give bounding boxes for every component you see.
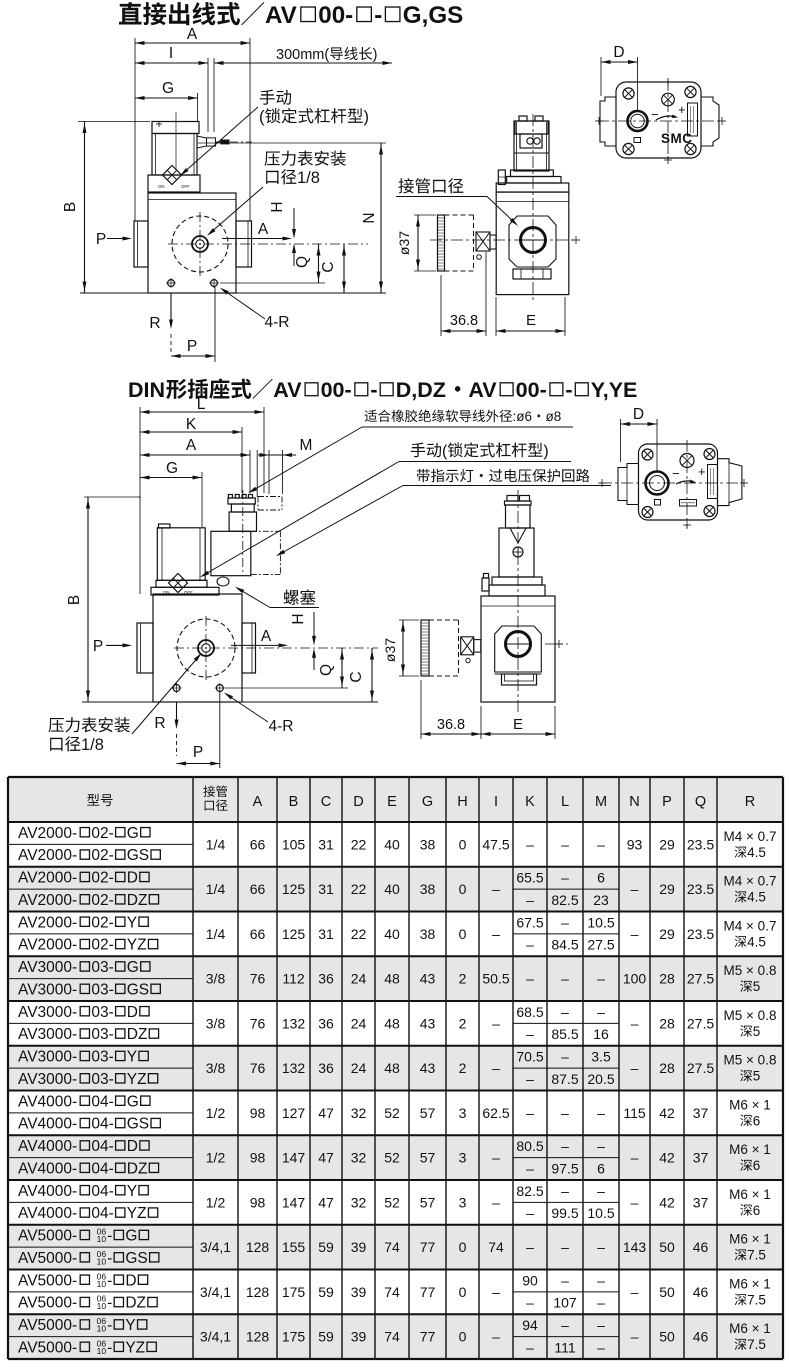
svg-text:125: 125 [282,881,306,897]
mounting holes [168,280,175,287]
svg-text:128: 128 [246,1239,270,1255]
svg-text:4-R: 4-R [269,718,294,735]
svg-text:3/4,1: 3/4,1 [200,1329,231,1345]
svg-text:48: 48 [384,1015,400,1031]
svg-text:36.8: 36.8 [437,717,465,733]
dim B (mid) [87,497,89,702]
svg-text:76: 76 [250,1060,266,1076]
svg-text:-: - [370,378,377,402]
svg-text:04-: 04- [91,1093,113,1110]
svg-text:36: 36 [318,1015,334,1031]
svg-text:DIN: DIN [128,378,165,402]
svg-text:03-: 03- [91,1004,113,1021]
svg-text:E: E [387,794,397,810]
svg-text:29: 29 [659,881,675,897]
svg-text:G: G [162,80,174,97]
svg-text:04-: 04- [91,1183,113,1200]
svg-text:C: C [321,794,331,810]
svg-text:–: – [526,1205,534,1221]
svg-text:3/8: 3/8 [206,1060,226,1076]
svg-text:28: 28 [659,1015,675,1031]
svg-text:–: – [631,1150,639,1166]
dim A (top-left) [135,42,250,44]
svg-text:0: 0 [459,881,467,897]
table grid [192,777,194,1359]
svg-text:0: 0 [459,1239,467,1255]
svg-text:4-R: 4-R [265,314,290,331]
svg-text:–: – [561,971,569,987]
svg-text:D: D [127,1004,138,1021]
svg-text:A: A [186,437,197,454]
svg-text:): ) [543,443,548,460]
svg-text:AV2000-: AV2000- [18,847,77,864]
svg-text:E: E [526,312,536,329]
svg-text:40: 40 [384,926,400,942]
svg-text:80.5: 80.5 [516,1138,543,1154]
svg-text:P: P [93,638,103,655]
svg-text:N: N [629,794,639,810]
svg-text:52: 52 [384,1105,400,1121]
svg-text:-: - [374,2,382,29]
connector bowtie [476,232,490,251]
svg-text:112: 112 [282,971,305,987]
back view screws [623,88,634,99]
svg-text:A: A [261,628,272,645]
arrow A at port [222,238,290,240]
svg-text:02-: 02- [91,937,113,954]
svg-text:47: 47 [318,1105,334,1121]
dim o37 (top side) [417,215,419,271]
svg-text:74: 74 [384,1239,400,1255]
DIN connector plug (mid-left) [228,495,232,499]
svg-text:–: – [526,1071,534,1087]
svg-text:0: 0 [459,1329,467,1345]
svg-text:D: D [127,1138,138,1155]
svg-text:M6 × 1: M6 × 1 [729,1232,771,1247]
svg-text:10: 10 [97,1301,107,1311]
coil (mid-left) [159,524,170,528]
svg-text:M6 × 1: M6 × 1 [729,1321,771,1336]
svg-text:–: – [492,881,500,897]
svg-text:–: – [526,1239,534,1255]
adjuster circle [662,93,675,106]
svg-text:AV4000-: AV4000- [18,1138,77,1155]
svg-text:-: - [107,1228,112,1245]
svg-text:): ) [373,47,378,63]
svg-text:66: 66 [250,881,266,897]
bottom extension line [80,292,386,294]
svg-text:175: 175 [282,1284,306,1300]
dim L (mid) [140,411,264,413]
svg-text:–: – [561,1004,569,1020]
svg-text:1/8: 1/8 [297,169,320,187]
svg-text:–: – [597,1138,605,1154]
svg-text:1/2: 1/2 [206,1194,226,1210]
dim P (bottom) [214,287,216,362]
svg-text:22: 22 [351,926,367,942]
svg-text:82.5: 82.5 [551,892,578,908]
svg-text:D,DZ: D,DZ [396,378,446,402]
lead wire connector [197,136,207,148]
svg-text:10.5: 10.5 [587,1205,614,1221]
centerlines (mid back) [600,482,746,484]
svg-text:84.5: 84.5 [551,937,578,953]
svg-text:–: – [631,1284,639,1300]
svg-text:59: 59 [318,1239,334,1255]
svg-text:GS: GS [127,1116,149,1133]
svg-text:-: - [107,1250,112,1267]
svg-text:3/8: 3/8 [206,1015,226,1031]
svg-text:G: G [127,825,139,842]
svg-text:AV3000-: AV3000- [18,1049,77,1066]
svg-text:AV: AV [265,2,297,29]
svg-text:10.5: 10.5 [587,914,614,930]
svg-text:AV2000-: AV2000- [18,892,77,909]
svg-text:04-: 04- [91,1205,113,1222]
svg-text:3: 3 [459,1150,467,1166]
arrow R down [170,293,172,326]
svg-text:105: 105 [282,836,306,852]
svg-text:GS: GS [127,981,149,998]
svg-text:22: 22 [351,836,367,852]
svg-text:–: – [526,1026,534,1042]
svg-text:M6 × 1: M6 × 1 [729,1097,771,1112]
svg-text:–: – [526,836,534,852]
svg-text:M6 × 1: M6 × 1 [729,1187,771,1202]
svg-text:03-: 03- [91,1049,113,1066]
svg-text:G: G [127,959,139,976]
dim I [135,62,208,64]
svg-text:23: 23 [593,892,609,908]
svg-text:67.5: 67.5 [516,914,543,930]
svg-text:107: 107 [553,1295,577,1311]
svg-text:29: 29 [659,836,675,852]
svg-text:–: – [561,914,569,930]
dim N (right) [380,143,382,293]
svg-text:Y: Y [127,1049,137,1066]
svg-text:–: – [597,1272,605,1288]
dim C [343,244,345,293]
right flange [236,221,252,267]
svg-text:K: K [186,416,197,433]
label manual override [260,90,275,105]
svg-text:46: 46 [693,1284,709,1300]
svg-text:99.5: 99.5 [551,1205,578,1221]
svg-text:43: 43 [420,1015,436,1031]
svg-text:1/4: 1/4 [206,881,226,897]
svg-text:OFF: OFF [181,184,190,189]
svg-text:–: – [561,1105,569,1121]
svg-text:AV3000-: AV3000- [18,1026,77,1043]
svg-text::ø6: :ø6 [513,409,533,424]
svg-text:02-: 02- [91,847,113,864]
svg-text:AV2000-: AV2000- [18,825,77,842]
svg-text:115: 115 [623,1105,646,1121]
svg-text:−: − [672,466,680,481]
svg-text:57: 57 [420,1105,436,1121]
svg-text:L: L [197,396,206,413]
svg-text:4.5: 4.5 [747,934,766,949]
svg-text:03-: 03- [91,981,113,998]
svg-text:98: 98 [250,1150,266,1166]
svg-text:G: G [422,794,433,810]
svg-text:GS: GS [127,847,149,864]
svg-text:0: 0 [459,836,467,852]
svg-text:0: 0 [459,1284,467,1300]
svg-text:68.5: 68.5 [516,1004,543,1020]
svg-text:AV3000-: AV3000- [18,981,77,998]
svg-text:00-: 00- [516,378,547,402]
gauge port circle [192,236,208,252]
svg-text:16: 16 [593,1026,609,1042]
label rubber cable [365,410,377,422]
svg-text:85.5: 85.5 [551,1026,578,1042]
svg-text:DZ: DZ [127,1026,148,1043]
svg-text:23.5: 23.5 [687,836,714,852]
port circle (mid side) [506,632,531,657]
svg-text:10: 10 [97,1279,107,1289]
svg-text:–: – [597,1004,605,1020]
svg-text:AV4000-: AV4000- [18,1116,77,1133]
svg-text:00-: 00- [321,378,352,402]
mounting holes (mid) [173,685,180,692]
phantom connector (dash-dot) [258,496,282,498]
manual override (mid) [169,574,188,593]
dim C (mid) [371,648,373,702]
svg-text:2: 2 [459,1060,467,1076]
svg-text:P: P [187,338,197,355]
label pressure gauge (mid bottom) [48,718,63,732]
svg-text:36: 36 [318,971,334,987]
svg-text:AV2000-: AV2000- [18,870,77,887]
svg-text:50: 50 [659,1239,675,1255]
svg-text:-: - [107,1339,112,1356]
svg-text:32: 32 [351,1194,367,1210]
svg-text:59: 59 [318,1329,334,1345]
svg-text:48: 48 [384,1060,400,1076]
svg-text:128: 128 [246,1329,270,1345]
svg-text:D: D [353,794,363,810]
svg-text:AV: AV [468,378,497,402]
svg-text:3: 3 [459,1194,467,1210]
svg-text:M6 × 1: M6 × 1 [729,1276,771,1291]
svg-text:AV2000-: AV2000- [18,937,77,954]
svg-text:57: 57 [420,1150,436,1166]
dim H [293,208,295,237]
svg-text:–: – [561,1049,569,1065]
svg-text:40: 40 [384,836,400,852]
svg-text:A: A [253,794,263,810]
svg-text:–: – [597,1239,605,1255]
svg-text:C: C [348,671,365,682]
svg-text:6: 6 [753,1203,761,1218]
svg-text:2: 2 [459,1015,467,1031]
svg-text:74: 74 [384,1329,400,1345]
svg-text:7.5: 7.5 [747,1292,766,1307]
svg-text:(: ( [259,108,265,126]
svg-text:1/4: 1/4 [206,926,226,942]
svg-text:24: 24 [351,1060,367,1076]
svg-text:90: 90 [522,1272,538,1288]
svg-text:–: – [526,892,534,908]
svg-text:77: 77 [420,1329,436,1345]
svg-text:AV4000-: AV4000- [18,1093,77,1110]
dim G (mid) [140,477,202,479]
svg-text:AV: AV [273,378,302,402]
svg-text:4.5: 4.5 [747,845,766,860]
dim P (mid bottom) [219,692,221,768]
svg-text:K: K [525,794,535,810]
svg-text:-: - [107,1272,112,1289]
svg-text:–: – [561,836,569,852]
filter disc [438,215,445,271]
svg-text:147: 147 [282,1150,306,1166]
svg-text:10: 10 [97,1346,107,1356]
svg-text:–: – [597,1105,605,1121]
svg-text:M5 × 0.8: M5 × 0.8 [724,963,777,978]
svg-text:–: – [597,836,605,852]
svg-text:39: 39 [351,1329,367,1345]
svg-text:31: 31 [318,926,334,942]
svg-text:–: – [597,1339,605,1355]
svg-text:3.5: 3.5 [591,1049,611,1065]
svg-text:43: 43 [420,971,436,987]
svg-text:N: N [361,212,378,223]
dashed bore circle [172,216,228,272]
svg-text:1/4: 1/4 [206,836,226,852]
svg-text:37: 37 [693,1194,709,1210]
svg-text:300mm(: 300mm( [276,47,329,63]
svg-text:AV5000-: AV5000- [18,1317,77,1334]
svg-text:4.5: 4.5 [747,890,766,905]
svg-text:23.5: 23.5 [687,926,714,942]
svg-text:–: – [526,971,534,987]
svg-text:–: – [631,881,639,897]
svg-text:B: B [289,794,299,810]
svg-text:D: D [633,406,644,423]
svg-text:28: 28 [659,1060,675,1076]
svg-text:D: D [125,1272,136,1289]
svg-text:–: – [492,1329,500,1345]
svg-text:AV4000-: AV4000- [18,1160,77,1177]
svg-text:M: M [300,437,313,454]
arrow R (mid) [176,702,178,726]
svg-text:–: – [561,870,569,886]
svg-text:G: G [127,1093,139,1110]
svg-text:62.5: 62.5 [482,1105,509,1121]
svg-text:47: 47 [318,1194,334,1210]
svg-text:–: – [597,1295,605,1311]
svg-text:127: 127 [282,1105,306,1121]
svg-text:42: 42 [659,1194,675,1210]
DIN plug (mid side) [507,496,518,502]
dim H (mid) [313,612,315,644]
svg-text:132: 132 [282,1060,306,1076]
dim K (mid) [140,431,242,433]
svg-text:6: 6 [597,1160,605,1176]
svg-text:–: – [631,926,639,942]
bottom boss (mid side) [495,673,542,675]
svg-text:6: 6 [597,870,605,886]
svg-text:–: – [526,1339,534,1355]
svg-text:–: – [492,926,500,942]
svg-text:98: 98 [250,1194,266,1210]
svg-text:-: - [107,1317,112,1334]
svg-text:B: B [62,202,79,212]
svg-text:43: 43 [420,1060,436,1076]
svg-text:H: H [457,794,467,810]
svg-text:L: L [561,794,569,810]
valve body (top-left) [148,193,236,293]
svg-text:36: 36 [318,1060,334,1076]
svg-text:ø37: ø37 [382,638,398,662]
svg-text:–: – [526,1105,534,1121]
svg-text:R: R [154,715,165,732]
svg-text:P: P [193,744,203,761]
svg-text:29: 29 [659,926,675,942]
label plate [688,103,698,136]
svg-text:10: 10 [97,1256,107,1266]
svg-text:–: – [561,1239,569,1255]
svg-text:–: – [597,1317,605,1333]
svg-text:Y: Y [127,914,137,931]
svg-text:–: – [492,1015,500,1031]
label manual override (mid) [411,443,425,458]
label pressure gauge port [264,151,279,165]
svg-text:M4 × 0.7: M4 × 0.7 [724,918,777,933]
svg-text:YZ: YZ [127,1071,147,1088]
svg-text:175: 175 [282,1329,306,1345]
svg-text:E: E [513,716,523,733]
svg-text:M5 × 0.8: M5 × 0.8 [724,1008,777,1023]
svg-text:AV5000-: AV5000- [18,1272,77,1289]
svg-text:5: 5 [753,979,761,994]
svg-text:AV3000-: AV3000- [18,959,77,976]
svg-text:39: 39 [351,1239,367,1255]
svg-text:–: – [597,971,605,987]
svg-text:B: B [66,595,83,605]
back view centerlines [597,120,724,122]
svg-text:–: – [597,1183,605,1199]
svg-text:I: I [169,45,173,62]
svg-text:YZ: YZ [127,937,147,954]
svg-text:Q: Q [695,794,706,810]
svg-text:70.5: 70.5 [516,1049,543,1065]
back view body (top right) [616,82,701,158]
svg-text:02-: 02- [91,892,113,909]
dim A (mid) [140,454,250,456]
svg-text:143: 143 [623,1239,647,1255]
svg-text:37: 37 [693,1150,709,1166]
svg-text:27.5: 27.5 [587,937,614,953]
svg-text:47: 47 [318,1150,334,1166]
back port circle [628,111,648,131]
adjuster (mid back) [680,454,694,468]
svg-text:98: 98 [250,1105,266,1121]
svg-text:20.5: 20.5 [587,1071,614,1087]
DIN adapter box [211,531,251,575]
svg-text:76: 76 [250,971,266,987]
svg-text:D: D [613,44,624,61]
svg-text:G,GS: G,GS [403,2,463,29]
svg-text:Y,YE: Y,YE [591,378,638,402]
svg-text:32: 32 [351,1150,367,1166]
svg-text:59: 59 [318,1284,334,1300]
svg-text:–: – [526,1295,534,1311]
svg-text:–: – [631,1060,639,1076]
svg-text:–: – [561,1138,569,1154]
label luosai plug [284,590,299,605]
